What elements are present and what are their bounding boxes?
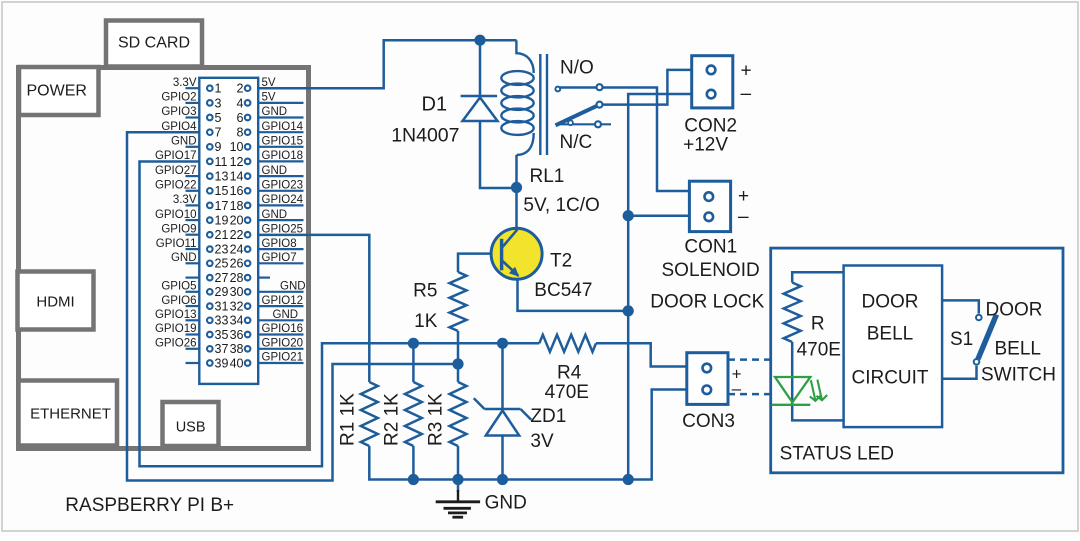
svg-text:GND: GND bbox=[171, 252, 197, 264]
svg-text:37: 37 bbox=[215, 342, 229, 356]
svg-text:GPIO7: GPIO7 bbox=[262, 252, 297, 264]
dashed wire CON3 + to status board bbox=[728, 358, 771, 361]
svg-text:13: 13 bbox=[215, 170, 229, 184]
wire: R5 top to T2 base, R5 bottom to rail2 bbox=[458, 254, 502, 364]
svg-text:GPIO16: GPIO16 bbox=[262, 323, 304, 335]
S1 switch arm bbox=[978, 315, 997, 360]
svg-text:S1: S1 bbox=[950, 329, 973, 350]
svg-text:GND: GND bbox=[171, 136, 197, 148]
svg-text:30: 30 bbox=[230, 285, 244, 299]
relay N/C line bbox=[556, 123, 611, 125]
node: rail1 / ZD1 / R4 bbox=[497, 338, 508, 349]
svg-text:22: 22 bbox=[230, 228, 244, 242]
svg-text:HDMI: HDMI bbox=[36, 294, 74, 311]
svg-text:DOOR: DOOR bbox=[862, 292, 919, 313]
svg-text:GPIO2: GPIO2 bbox=[161, 92, 196, 104]
node: ground rail / emitter line bbox=[623, 474, 634, 485]
USB block bbox=[163, 402, 219, 446]
svg-text:DOOR: DOOR bbox=[986, 300, 1043, 321]
wire: relay N/O contact to CON1 + bbox=[560, 88, 689, 192]
SD CARD block bbox=[106, 21, 202, 67]
svg-text:GPIO5: GPIO5 bbox=[161, 281, 196, 293]
svg-text:5V, 1C/O: 5V, 1C/O bbox=[523, 195, 599, 216]
svg-text:USB: USB bbox=[176, 420, 206, 436]
svg-text:34: 34 bbox=[230, 314, 244, 328]
svg-text:SWITCH: SWITCH bbox=[981, 365, 1056, 386]
svg-text:38: 38 bbox=[230, 342, 244, 356]
GPIO right pin labels bbox=[262, 77, 306, 364]
relay N/C pivot circle bbox=[568, 120, 573, 125]
node: CON1 - junction bbox=[623, 210, 634, 221]
svg-text:GPIO18: GPIO18 bbox=[262, 150, 304, 162]
svg-text:GND: GND bbox=[262, 209, 288, 221]
svg-text:CON1: CON1 bbox=[684, 237, 737, 258]
svg-text:+12V: +12V bbox=[683, 135, 728, 156]
svg-text:T2: T2 bbox=[550, 251, 572, 272]
zener diode ZD1 symbol bbox=[474, 398, 531, 435]
svg-text:9: 9 bbox=[215, 140, 222, 154]
relay RL1 coil bbox=[501, 40, 533, 155]
svg-text:BC547: BC547 bbox=[534, 280, 592, 301]
svg-text:3V: 3V bbox=[530, 431, 554, 452]
svg-text:1N4007: 1N4007 bbox=[391, 125, 459, 147]
svg-text:12: 12 bbox=[230, 155, 244, 169]
svg-text:GPIO20: GPIO20 bbox=[262, 338, 304, 350]
svg-text:DOOR LOCK: DOOR LOCK bbox=[650, 291, 764, 312]
svg-text:15: 15 bbox=[215, 184, 229, 198]
svg-text:17: 17 bbox=[215, 199, 229, 213]
S1 top contact circle bbox=[976, 315, 982, 321]
connector CON1 bbox=[689, 181, 730, 231]
relay N/O mid contact circle bbox=[597, 84, 603, 90]
svg-text:STATUS LED: STATUS LED bbox=[780, 444, 894, 465]
relay N/C contact circle bbox=[595, 121, 601, 127]
svg-text:4: 4 bbox=[237, 96, 244, 110]
svg-text:GPIO23: GPIO23 bbox=[262, 179, 304, 191]
svg-text:33: 33 bbox=[215, 314, 229, 328]
svg-text:GPIO15: GPIO15 bbox=[262, 136, 304, 148]
svg-text:–: – bbox=[738, 207, 749, 228]
svg-text:19: 19 bbox=[215, 214, 229, 228]
wire: relay pole to CON2 + bbox=[603, 70, 692, 105]
svg-text:GPIO14: GPIO14 bbox=[262, 121, 304, 133]
DOOR BELL CIRCUIT box bbox=[844, 266, 943, 428]
svg-text:11: 11 bbox=[215, 155, 228, 169]
node: rail1 / R2 bbox=[408, 338, 419, 349]
svg-text:8: 8 bbox=[237, 126, 244, 140]
GPIO left pin labels bbox=[155, 77, 197, 350]
svg-text:31: 31 bbox=[215, 299, 229, 313]
svg-text:ZD1: ZD1 bbox=[530, 406, 566, 427]
svg-text:CIRCUIT: CIRCUIT bbox=[851, 368, 928, 389]
svg-text:RL1: RL1 bbox=[530, 166, 565, 187]
svg-text:27: 27 bbox=[215, 271, 229, 285]
svg-text:35: 35 bbox=[215, 328, 229, 342]
svg-text:GPIO3: GPIO3 bbox=[161, 106, 196, 118]
svg-text:10: 10 bbox=[230, 140, 244, 154]
svg-text:GPIO8: GPIO8 bbox=[262, 238, 297, 250]
svg-text:GND: GND bbox=[262, 106, 288, 118]
svg-text:7: 7 bbox=[215, 126, 222, 140]
wire: GPIO4 pin7 around bottom to rail2 bbox=[127, 132, 458, 480]
svg-text:GPIO22: GPIO22 bbox=[155, 179, 197, 191]
resistor R3 bbox=[450, 382, 467, 446]
svg-text:18: 18 bbox=[230, 199, 244, 213]
GPIO right pin stubs bbox=[258, 103, 303, 363]
diode D1 symbol bbox=[461, 96, 498, 121]
LED (green) symbol bbox=[772, 377, 811, 405]
svg-text:GPIO11: GPIO11 bbox=[156, 238, 197, 250]
relay armature arm bbox=[556, 106, 598, 126]
wire: door bell box to S1 top contact bbox=[942, 300, 979, 313]
svg-text:16: 16 bbox=[230, 184, 244, 198]
wire: T2 emitter down and right to CON line bbox=[518, 277, 629, 311]
transistor T2 base bar and leads bbox=[502, 229, 520, 276]
svg-text:N/O: N/O bbox=[560, 58, 594, 79]
svg-text:GPIO13: GPIO13 bbox=[155, 309, 197, 321]
svg-text:28: 28 bbox=[230, 271, 244, 285]
svg-text:GND: GND bbox=[485, 493, 527, 514]
svg-text:ETHERNET: ETHERNET bbox=[30, 406, 111, 423]
svg-text:24: 24 bbox=[230, 243, 244, 257]
svg-text:21: 21 bbox=[215, 228, 229, 242]
resistor R4 bbox=[539, 335, 596, 352]
GPIO left pin stubs bbox=[186, 88, 200, 363]
svg-text:SOLENOID: SOLENOID bbox=[662, 260, 760, 281]
resistor R5 bbox=[450, 272, 467, 331]
LED light arrows bbox=[810, 380, 827, 401]
resistor R2 bbox=[405, 382, 422, 446]
svg-text:25: 25 bbox=[215, 257, 229, 271]
ground symbol bbox=[436, 480, 480, 518]
svg-text:40: 40 bbox=[230, 356, 244, 370]
wire: D1 top/bottom connections bbox=[480, 40, 517, 188]
node: ground rail / R2 bbox=[408, 474, 419, 485]
wire: rail1 continues after R4 to CON3 + bbox=[596, 343, 687, 366]
svg-text:5V: 5V bbox=[262, 92, 276, 104]
svg-text:3: 3 bbox=[215, 96, 222, 110]
svg-text:GPIO9: GPIO9 bbox=[161, 223, 196, 235]
svg-text:2: 2 bbox=[237, 82, 244, 96]
svg-text:GPIO12: GPIO12 bbox=[262, 295, 304, 307]
svg-text:26: 26 bbox=[230, 257, 244, 271]
connector CON2 bbox=[692, 56, 733, 108]
wire: ZD1 vertical connections bbox=[501, 343, 504, 479]
svg-text:470E: 470E bbox=[797, 340, 841, 361]
ETHERNET block bbox=[19, 381, 118, 446]
resistor R (status board) bbox=[784, 283, 801, 343]
wire: ground rail bbox=[369, 390, 687, 480]
relay N/O fixed contact circle bbox=[555, 87, 560, 92]
svg-text:GND: GND bbox=[262, 165, 288, 177]
wire: GPIO17 pin11 around bottom to rail1 bbox=[140, 162, 540, 467]
svg-text:+: + bbox=[738, 186, 749, 207]
transistor T2 body bbox=[491, 228, 542, 279]
svg-text:R: R bbox=[811, 314, 825, 335]
svg-text:+: + bbox=[741, 61, 752, 82]
svg-text:R1 1K: R1 1K bbox=[338, 393, 359, 446]
S1 bottom contact circle bbox=[974, 359, 980, 365]
node: ground rail / ZD1 bbox=[497, 474, 508, 485]
Raspberry Pi B+ module outline bbox=[19, 68, 309, 449]
svg-text:GPIO6: GPIO6 bbox=[161, 295, 196, 307]
svg-text:R5: R5 bbox=[413, 281, 437, 302]
svg-text:R4: R4 bbox=[557, 363, 582, 384]
svg-text:14: 14 bbox=[230, 170, 244, 184]
svg-text:GND: GND bbox=[280, 281, 306, 293]
svg-text:6: 6 bbox=[237, 111, 244, 125]
svg-text:1: 1 bbox=[215, 82, 222, 96]
STATUS LED board outline bbox=[771, 248, 1063, 473]
node: T2 emitter junction bbox=[623, 305, 634, 316]
svg-text:20: 20 bbox=[230, 214, 244, 228]
svg-text:GPIO27: GPIO27 bbox=[155, 165, 197, 177]
node: rail2 / R5 / R3 bbox=[452, 358, 463, 369]
GPIO pin rows: circles and pin numbers 1-40 bbox=[207, 85, 250, 365]
svg-text:–: – bbox=[741, 84, 752, 105]
svg-text:SD CARD: SD CARD bbox=[118, 35, 190, 52]
dashed wire CON3 - to status board bbox=[728, 393, 771, 396]
wire: door bell box to S1 bottom contact bbox=[942, 366, 976, 379]
svg-text:470E: 470E bbox=[545, 382, 589, 403]
svg-text:1K: 1K bbox=[414, 311, 438, 332]
HDMI block bbox=[18, 272, 94, 330]
svg-text:32: 32 bbox=[230, 299, 244, 313]
svg-text:GPIO25: GPIO25 bbox=[262, 223, 304, 235]
relay pole contact circle and wire bbox=[597, 102, 603, 108]
svg-text:3.3V: 3.3V bbox=[173, 194, 197, 206]
svg-text:CON2: CON2 bbox=[684, 115, 737, 136]
wire: CON2 minus line down through CON1 minus to ground rail bbox=[628, 94, 692, 480]
wire: R3 feed from rail2 and bottom bbox=[457, 364, 460, 480]
wire: GPIO25 pin22 down to R1 bbox=[258, 235, 369, 382]
svg-text:3.3V: 3.3V bbox=[173, 77, 197, 89]
svg-text:R2 1K: R2 1K bbox=[382, 393, 403, 446]
node: ground rail / R3 / GND bbox=[452, 474, 463, 485]
svg-text:RASPBERRY PI B+: RASPBERRY PI B+ bbox=[65, 495, 234, 516]
svg-text:GPIO21: GPIO21 bbox=[262, 352, 304, 364]
svg-text:39: 39 bbox=[215, 356, 229, 370]
svg-text:N/C: N/C bbox=[560, 132, 593, 153]
svg-text:BELL: BELL bbox=[867, 324, 913, 345]
svg-text:23: 23 bbox=[215, 243, 229, 257]
wire: R bottom through LED to door bell box bbox=[792, 342, 843, 420]
svg-text:GPIO24: GPIO24 bbox=[262, 194, 304, 206]
connector CON3 bbox=[687, 353, 728, 405]
svg-text:CON3: CON3 bbox=[682, 411, 735, 432]
node: 5V / D1 / relay top bbox=[474, 35, 485, 46]
resistor R1 bbox=[361, 382, 378, 446]
wire: CON1 minus stub bbox=[628, 214, 689, 217]
svg-text:R3 1K: R3 1K bbox=[426, 393, 447, 446]
wire: relay coil bottom to T2 collector bbox=[515, 155, 518, 229]
svg-text:BELL: BELL bbox=[995, 339, 1041, 360]
wire: R top to door bell box bbox=[792, 272, 843, 282]
svg-text:5: 5 bbox=[215, 111, 222, 125]
svg-text:GPIO10: GPIO10 bbox=[155, 209, 197, 221]
wire: 5V pin2 to relay top bbox=[258, 40, 516, 88]
svg-text:29: 29 bbox=[215, 285, 229, 299]
svg-text:36: 36 bbox=[230, 328, 244, 342]
relay RL1 core lines bbox=[540, 54, 547, 155]
GPIO header box bbox=[199, 78, 258, 384]
wire: R2 bottom bbox=[412, 446, 415, 480]
svg-text:GPIO26: GPIO26 bbox=[155, 338, 197, 350]
wire: R2 top feed bbox=[412, 343, 415, 382]
svg-text:POWER: POWER bbox=[27, 83, 87, 100]
svg-text:GND: GND bbox=[273, 309, 299, 321]
node: relay coil bottom / D1 / T2 collector bbox=[511, 182, 522, 193]
POWER block bbox=[19, 67, 99, 115]
svg-text:GPIO19: GPIO19 bbox=[155, 323, 197, 335]
svg-text:D1: D1 bbox=[422, 94, 448, 116]
